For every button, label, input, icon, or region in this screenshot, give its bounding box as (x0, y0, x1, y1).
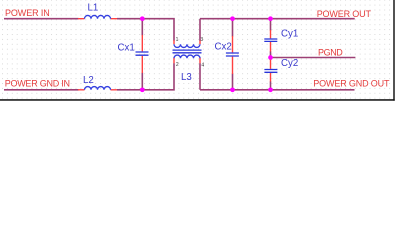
svg-text:L2: L2 (83, 75, 94, 86)
sheet border bottom (0, 99, 395, 101)
svg-text:Cx2: Cx2 (215, 41, 232, 52)
svg-text:1: 1 (176, 37, 179, 43)
junction node PGND (268, 55, 273, 60)
svg-text:L1: L1 (88, 3, 99, 14)
wire Cx1 bottom pin to bottom rail (141, 73, 143, 90)
wire Cy1 top pin to top rail (270, 19, 272, 31)
wire PGND node to Cy2 (270, 58, 272, 61)
transformer L3 common-mode choke (173, 40, 202, 63)
wire L3 pin 4 to POWER GND OUT (200, 63, 355, 90)
junction node Cx2 bottom (230, 87, 235, 92)
capacitor Cx2 (226, 36, 239, 74)
svg-text:4: 4 (201, 62, 204, 68)
wire POWER GND IN to L2 (4, 89, 79, 91)
svg-text:POWER IN: POWER IN (5, 8, 50, 18)
wire L3 pin 3 to POWER OUT (200, 19, 355, 41)
svg-text:2: 2 (176, 62, 179, 68)
inductor L1 (78, 15, 117, 18)
capacitor Cy1 (264, 30, 277, 52)
wire PGND stub (271, 57, 356, 59)
svg-text:POWER GND OUT: POWER GND OUT (313, 79, 390, 89)
wire Cx1 top pin to top rail (141, 19, 143, 36)
capacitor Cy2 (264, 59, 277, 82)
wire L1 to L3 pin 1 (117, 19, 174, 41)
wire POWER IN to L1 (4, 18, 79, 20)
svg-text:POWER OUT: POWER OUT (317, 9, 372, 19)
junction node Cx1 bottom (140, 87, 145, 92)
wire Cx2 top pin to top rail (232, 19, 234, 37)
wire L2 to L3 pin 2 (117, 63, 174, 90)
svg-text:3: 3 (200, 37, 203, 43)
svg-text:Cx1: Cx1 (118, 42, 135, 53)
junction node Cx2 top (230, 16, 235, 21)
svg-text:Cy2: Cy2 (281, 58, 298, 69)
inductor L2 (78, 87, 117, 90)
svg-text:PGND: PGND (318, 47, 343, 57)
wire Cx2 bottom pin to bottom rail (232, 74, 234, 90)
wire Cy2 bottom pin to bottom rail (270, 82, 272, 90)
sheet border right (393, 0, 394, 101)
junction node Cx1 top (140, 16, 145, 21)
svg-text:L3: L3 (181, 72, 192, 83)
svg-text:Cy1: Cy1 (281, 28, 298, 39)
capacitor Cx1 (136, 35, 149, 73)
junction node Cy1 top (268, 16, 273, 21)
junction node Cy2 bottom (268, 87, 273, 92)
svg-text:POWER GND IN: POWER GND IN (5, 79, 70, 89)
wire Cy1 to PGND node (270, 52, 272, 58)
